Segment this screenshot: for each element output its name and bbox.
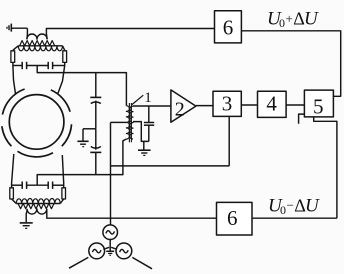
svg-text:2: 2: [175, 99, 185, 121]
svg-text:0: 0: [280, 203, 286, 217]
svg-text:0: 0: [279, 16, 285, 30]
svg-text:3: 3: [222, 91, 233, 115]
svg-text:6: 6: [223, 15, 234, 39]
svg-text:5: 5: [313, 95, 324, 119]
svg-text:4: 4: [266, 91, 277, 115]
svg-text:6: 6: [227, 206, 238, 230]
svg-text:U: U: [305, 195, 320, 216]
svg-text:−: −: [287, 198, 294, 213]
svg-text:+: +: [286, 11, 293, 26]
svg-text:U: U: [304, 9, 319, 30]
svg-text:1: 1: [144, 90, 152, 106]
